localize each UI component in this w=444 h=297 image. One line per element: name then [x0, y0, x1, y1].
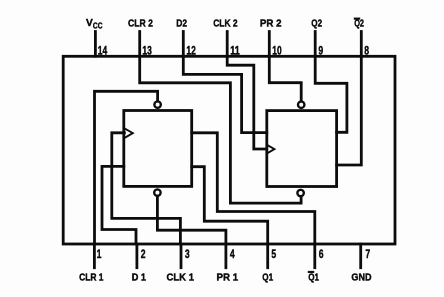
svg-text:12: 12: [186, 43, 196, 57]
pin 9 stub: [314, 32, 317, 57]
svg-text:5: 5: [271, 247, 276, 261]
wire CLR2: pin 13 to FF2 bottom bubble: [140, 56, 301, 203]
pin 14 stub: [94, 32, 97, 57]
overbar of Q2bar: [354, 18, 360, 20]
svg-text:13: 13: [142, 43, 152, 57]
svg-text:CC: CC: [93, 22, 103, 31]
svg-text:4: 4: [230, 247, 235, 261]
pin 3 stub: [180, 244, 183, 268]
svg-text:6: 6: [319, 247, 324, 261]
svg-text:3: 3: [185, 247, 190, 261]
svg-text:14: 14: [98, 43, 108, 57]
pin 6 stub: [313, 244, 316, 268]
pin 8 stub: [360, 32, 363, 57]
pin 10 stub: [268, 32, 271, 57]
svg-text:Q1: Q1: [262, 271, 273, 283]
svg-text:10: 10: [272, 43, 282, 57]
flip-flop FF2 body: [267, 111, 337, 187]
svg-text:CLK 1: CLK 1: [167, 271, 195, 283]
svg-text:Q1: Q1: [308, 271, 319, 283]
svg-text:CLK 2: CLK 2: [213, 18, 238, 30]
svg-text:11: 11: [230, 43, 240, 57]
svg-text:9: 9: [318, 43, 323, 57]
wire D2: pin 12 to FF2 D input: [183, 56, 266, 132]
svg-text:CLR 2: CLR 2: [128, 18, 153, 30]
pin 11 stub: [226, 32, 229, 57]
pin 2 stub: [135, 244, 138, 268]
FF2 PR bubble (top): [298, 102, 304, 108]
FF1 PR bubble (bottom): [154, 189, 160, 195]
svg-text:Q2: Q2: [311, 18, 322, 30]
overbar of Q1bar: [308, 271, 314, 273]
wire D1: FF1 D input to pin 2: [102, 166, 136, 244]
wire CLK1: FF1 clock to pin 3: [112, 133, 181, 244]
wire Q1: FF1 lower output to pin 5: [192, 167, 268, 244]
wire PR2: pin 10 to FF2 top bubble: [269, 56, 301, 100]
wire Q2bar: FF2 lower output to pin 8: [337, 56, 362, 165]
wire CLR1: pin1 to FF1 top bubble: [95, 91, 158, 244]
svg-text:PR 1: PR 1: [217, 271, 239, 283]
svg-text:7: 7: [365, 247, 370, 261]
FF2 clock triangle: [267, 145, 274, 153]
svg-text:PR 2: PR 2: [260, 18, 282, 30]
pin 7 stub: [359, 244, 362, 268]
wire Q2: FF2 upper output to pin 9: [315, 56, 347, 132]
svg-text:D 1: D 1: [132, 271, 146, 283]
wire PR1: FF1 bottom bubble to pin 4: [157, 196, 226, 244]
svg-text:CLR 1: CLR 1: [79, 271, 104, 283]
FF2 CLR bubble (bottom): [297, 190, 303, 196]
wire Q1bar: FF1 upper output to pin 6: [192, 133, 315, 244]
IC package outline U1 (7474): [63, 56, 395, 244]
pin 12 stub: [182, 32, 185, 57]
svg-text:2: 2: [141, 247, 146, 261]
pin 4 stub: [224, 244, 227, 268]
pin 5 stub: [266, 244, 269, 268]
pin 1 stub: [93, 244, 96, 268]
flip-flop FF1 body: [124, 111, 192, 187]
svg-text:1: 1: [97, 247, 102, 261]
svg-text:V: V: [86, 17, 93, 29]
svg-text:8: 8: [364, 43, 369, 57]
FF1 CLR bubble (top): [154, 101, 160, 107]
svg-text:D2: D2: [176, 18, 187, 30]
pin 13 stub: [138, 32, 141, 57]
svg-text:GND: GND: [351, 271, 372, 283]
wire CLK2: pin 11 to FF2 clock: [227, 56, 267, 149]
FF1 clock triangle: [125, 129, 133, 138]
